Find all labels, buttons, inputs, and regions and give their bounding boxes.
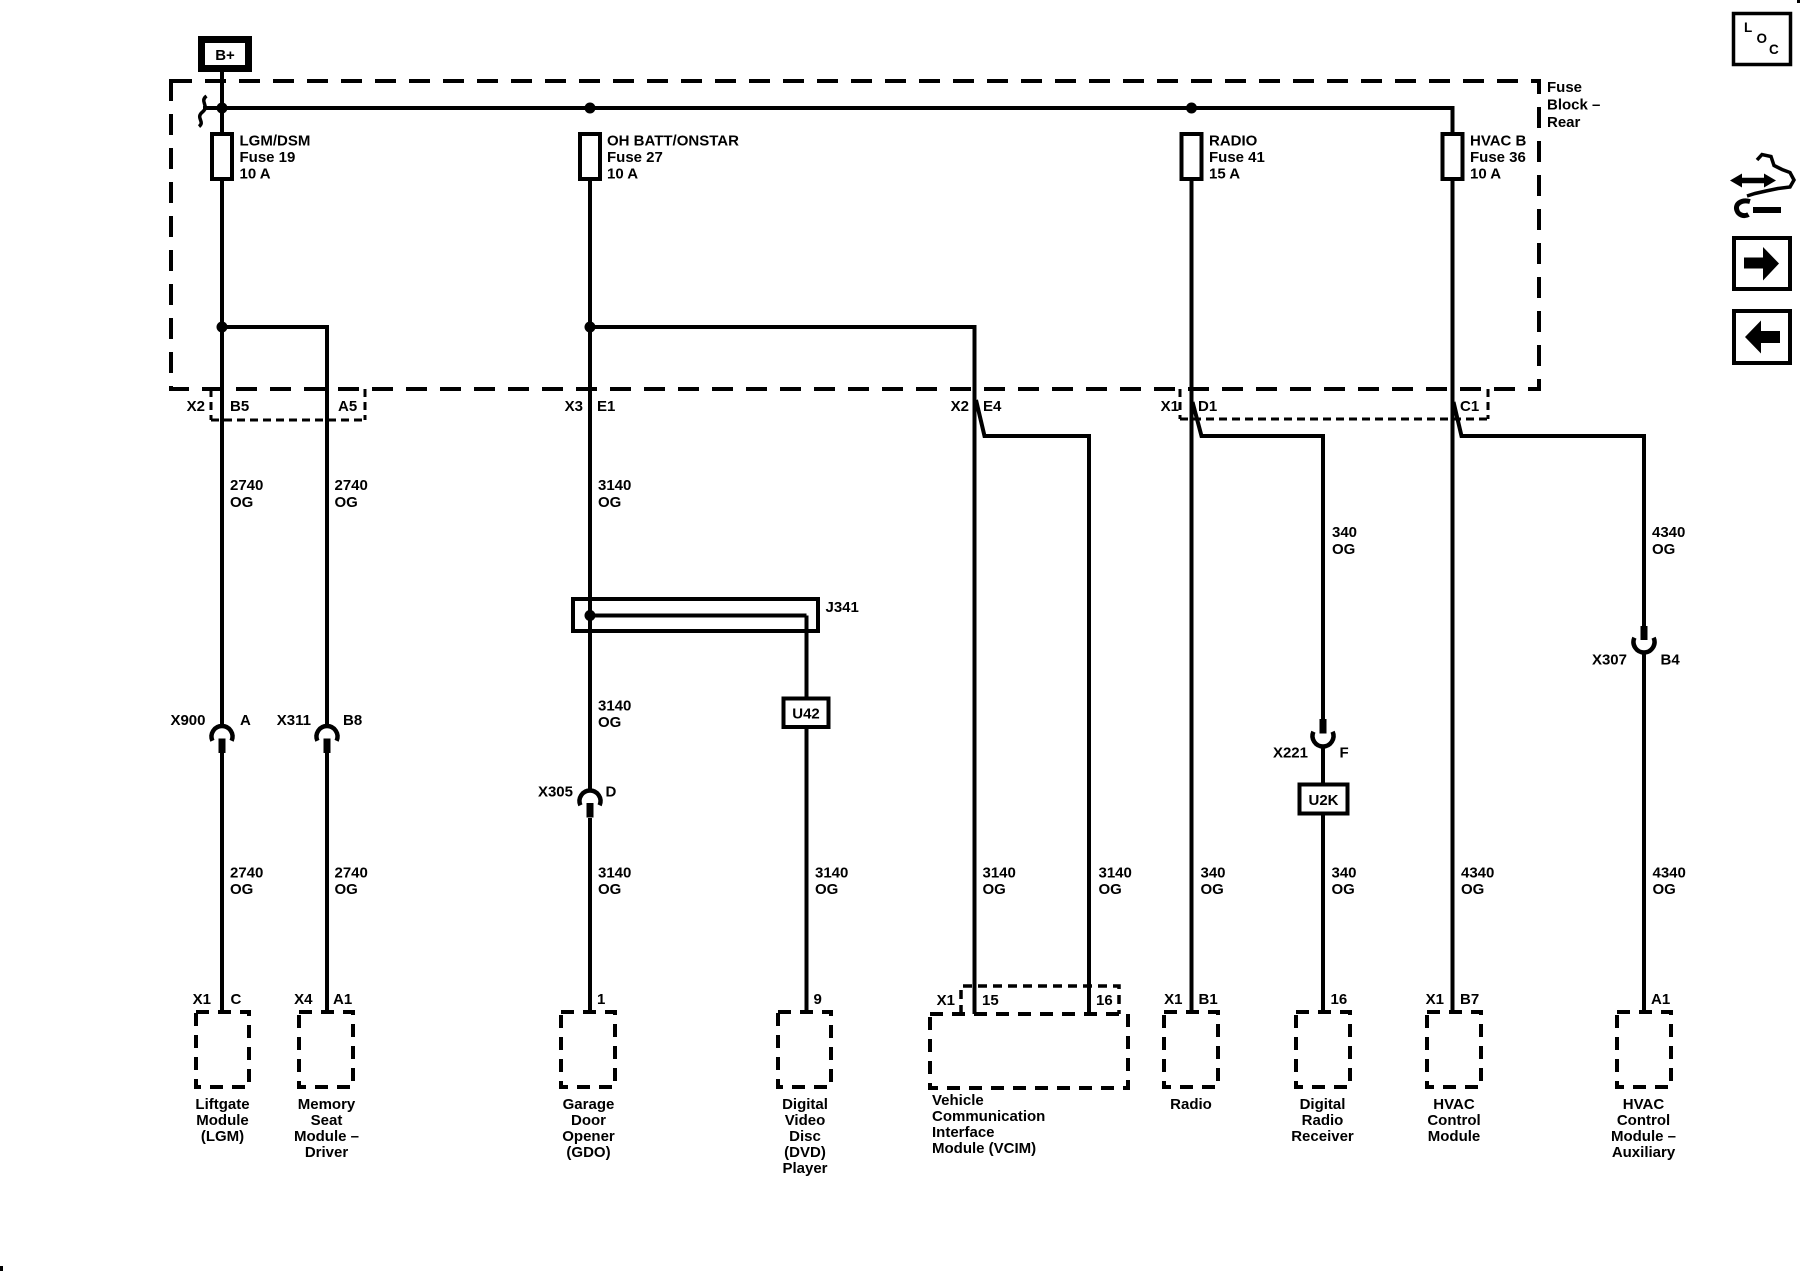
svg-text:Vehicle: Vehicle [932,1092,984,1109]
svg-text:C1: C1 [1460,398,1479,415]
fuse block rear dashed outline [171,81,1539,389]
svg-text:X1: X1 [1161,398,1179,415]
wire X900 to liftgate module [220,753,224,1012]
navigation icon double arrow with loop [1730,155,1794,216]
wire label 3140 OG (lower DVD) [815,865,848,899]
svg-text:Radio: Radio [1170,1096,1212,1113]
memory seat module box [294,991,359,1161]
svg-text:OG: OG [1201,881,1224,898]
svg-text:340: 340 [1332,524,1357,541]
wire label 4340 OG (HVAC) [1461,865,1494,899]
svg-text:HVAC: HVAC [1623,1096,1665,1113]
svg-text:OG: OG [230,494,253,511]
connector strip X1 (D1 C1) [1180,389,1488,419]
wire label 3140 OG (E1) [598,477,631,511]
power symbol B+ [202,40,249,69]
svg-text:Auxiliary: Auxiliary [1612,1144,1676,1161]
svg-text:3140: 3140 [1099,865,1132,882]
svg-text:(LGM): (LGM) [201,1128,244,1145]
svg-text:X4: X4 [294,991,313,1008]
wire label 340 OG (radio) [1201,865,1226,899]
svg-text:Player: Player [782,1160,827,1177]
svg-text:Seat: Seat [311,1112,343,1129]
wire fuse41 output through D1 down to radio [1190,179,1194,1012]
wire X221 to U2K [1321,746,1325,785]
svg-text:OG: OG [598,494,621,511]
svg-text:OG: OG [983,881,1006,898]
svg-text:4340: 4340 [1652,524,1685,541]
LOC legend box [1734,14,1791,65]
svg-text:Communication: Communication [932,1108,1045,1125]
svg-text:RADIO: RADIO [1209,133,1258,150]
svg-text:A1: A1 [333,991,352,1008]
fuse OH BATT/ONSTAR Fuse 27 10A [580,133,739,183]
svg-text:X1: X1 [937,992,955,1009]
svg-text:4340: 4340 [1461,865,1494,882]
svg-text:X1: X1 [193,991,211,1008]
svg-text:X1: X1 [1426,991,1444,1008]
VCIM module box [930,986,1128,1157]
svg-text:X1: X1 [1164,991,1182,1008]
junction node fuse27 branch [585,322,596,333]
label Fuse Block - Rear [1547,79,1600,131]
svg-text:Door: Door [571,1112,606,1129]
svg-text:C: C [231,991,242,1008]
wire U42 to DVD player [805,727,809,1012]
svg-text:X900: X900 [170,712,205,729]
svg-text:D: D [606,784,617,801]
svg-text:Garage: Garage [563,1096,615,1113]
page corner mark top right [1797,0,1800,3]
wire label 340 OG (DRR) [1332,865,1357,899]
svg-text:3140: 3140 [598,865,631,882]
svg-text:Module (VCIM): Module (VCIM) [932,1140,1036,1157]
radio box [1164,991,1218,1113]
garage door opener box [561,991,615,1161]
svg-text:B8: B8 [343,712,362,729]
wire fuse19 output to B5 and down to X900 [220,179,224,727]
svg-text:OG: OG [230,881,253,898]
svg-text:Block –: Block – [1547,97,1600,114]
svg-text:O: O [1757,31,1768,46]
svg-text:9: 9 [814,991,822,1008]
wire fuse36 output through C1 down to HVAC control module [1451,179,1455,1012]
junction node at B+ column [217,103,228,114]
wire label 4340 OG (HVAC aux) [1653,865,1686,899]
liftgate module box [193,991,250,1145]
svg-text:B7: B7 [1460,991,1479,1008]
svg-text:Fuse 36: Fuse 36 [1470,149,1526,166]
connector X900 pin A [170,712,251,753]
svg-text:OG: OG [1652,541,1675,558]
svg-text:OG: OG [1099,881,1122,898]
svg-text:A: A [240,712,251,729]
navigation icon arrow right box [1734,238,1790,289]
wire branch to A5 column [222,327,327,727]
svg-text:J341: J341 [826,599,859,616]
svg-text:Digital: Digital [782,1096,828,1113]
svg-text:Liftgate: Liftgate [195,1096,249,1113]
svg-text:D1: D1 [1198,398,1217,415]
svg-text:B4: B4 [1661,652,1681,669]
svg-text:OG: OG [1332,541,1355,558]
wire J341 internal bus [590,614,807,618]
svg-text:15: 15 [982,992,999,1009]
svg-text:E4: E4 [983,398,1002,415]
svg-text:3140: 3140 [815,865,848,882]
svg-text:2740: 2740 [230,865,263,882]
wire fork below E4 to VCIM pin 16 [976,400,1089,1014]
connector X307 pin B4 [1592,626,1680,669]
svg-text:Fuse: Fuse [1547,79,1582,96]
svg-text:2740: 2740 [230,477,263,494]
svg-text:LGM/DSM: LGM/DSM [240,133,311,150]
connector X221 pin F [1273,719,1349,762]
svg-text:F: F [1340,745,1349,762]
svg-text:Fuse 19: Fuse 19 [240,149,296,166]
wire X307 to HVAC control module auxiliary [1642,652,1646,1012]
digital radio receiver box [1291,991,1354,1145]
HVAC control module box [1426,991,1481,1145]
page mark bottom left [0,1266,3,1271]
junction node at fuse 27 column [585,103,596,114]
svg-text:1: 1 [597,991,605,1008]
svg-text:Module –: Module – [1611,1128,1676,1145]
wire label 2740 OG (lower B5) [230,865,263,899]
svg-text:3140: 3140 [983,865,1016,882]
svg-text:X311: X311 [277,712,311,729]
svg-text:X221: X221 [1273,745,1308,762]
svg-text:X3: X3 [565,398,583,415]
wire X305 to garage door opener [588,818,592,1012]
svg-text:Rear: Rear [1547,114,1581,131]
svg-text:340: 340 [1332,865,1357,882]
fuse RADIO Fuse 41 15A [1182,133,1265,183]
wire label 3140 OG (lower GDO) [598,865,631,899]
connector strip X2 (B5 A5) [211,389,365,420]
svg-text:B1: B1 [1199,991,1218,1008]
DVD player box [778,991,831,1177]
wire fork below C1 to X307 column [1454,402,1645,626]
junction node inside J341 [585,610,596,621]
HVAC control module auxiliary box [1611,991,1676,1161]
wire branch to E4 column [590,327,975,1014]
svg-text:OG: OG [335,494,358,511]
wire U2K to digital radio receiver [1321,814,1325,1013]
wire B+ feed drop [220,72,224,134]
svg-text:Module: Module [196,1112,249,1129]
data link U2K [1300,785,1348,814]
wire X311 to memory seat module [325,753,329,1012]
svg-text:OG: OG [598,714,621,731]
junction node at fuse 41 column [1186,103,1197,114]
svg-text:Memory: Memory [298,1096,356,1113]
svg-text:U2K: U2K [1308,792,1338,809]
svg-text:OG: OG [1653,881,1676,898]
svg-text:L: L [1744,20,1752,35]
svg-text:Control: Control [1427,1112,1480,1129]
svg-text:3140: 3140 [598,477,631,494]
wire main bus [203,108,1453,134]
svg-text:2740: 2740 [335,477,368,494]
svg-text:HVAC: HVAC [1433,1096,1475,1113]
svg-text:10 A: 10 A [240,166,271,183]
svg-text:OG: OG [815,881,838,898]
splice pack J341 [573,599,859,631]
svg-text:X305: X305 [538,784,573,801]
svg-text:Control: Control [1617,1112,1670,1129]
svg-text:Disc: Disc [789,1128,821,1145]
wire label 4340 OG (C1 branch) [1652,524,1685,558]
svg-text:OG: OG [598,881,621,898]
wire label 3140 OG (VCIM 15) [983,865,1016,899]
svg-text:340: 340 [1201,865,1226,882]
connector X311 pin B8 [277,712,362,753]
svg-text:X2: X2 [187,398,205,415]
wire label 2740 OG (B5) [230,477,263,511]
svg-text:Module: Module [1428,1128,1481,1145]
connector X305 pin D [538,784,617,818]
svg-text:B5: B5 [230,398,249,415]
svg-text:Fuse 27: Fuse 27 [607,149,663,166]
svg-text:E1: E1 [597,398,615,415]
svg-text:B+: B+ [215,47,235,64]
wire fork below D1 to X221 column [1193,402,1324,719]
svg-text:Driver: Driver [305,1144,349,1161]
fuse HVAC B Fuse 36 10A [1443,133,1527,183]
svg-text:C: C [1769,42,1779,57]
svg-text:16: 16 [1096,992,1113,1009]
svg-text:10 A: 10 A [1470,166,1501,183]
navigation icon arrow left box [1734,311,1790,363]
svg-text:15 A: 15 A [1209,166,1240,183]
wire J341 branch down to U42 [805,616,809,699]
fuse LGM/DSM Fuse 19 10A [212,133,310,183]
svg-text:(DVD): (DVD) [784,1144,826,1161]
wire label 2740 OG (lower A5) [335,865,368,899]
wire label 2740 OG (A5) [335,477,368,511]
splice squiggle at bus start [199,96,207,127]
svg-text:10 A: 10 A [607,166,638,183]
svg-text:Opener: Opener [562,1128,615,1145]
svg-text:HVAC B: HVAC B [1470,133,1527,150]
data link U42 [784,699,829,728]
svg-text:Module –: Module – [294,1128,359,1145]
svg-text:A1: A1 [1651,991,1670,1008]
svg-text:X307: X307 [1592,652,1627,669]
svg-text:Interface: Interface [932,1124,995,1141]
wire fuse27 output to E1 and down through J341 to X305 [588,179,592,791]
svg-text:Radio: Radio [1302,1112,1344,1129]
wire label 340 OG (D1 branch) [1332,524,1357,558]
svg-text:OH BATT/ONSTAR: OH BATT/ONSTAR [607,133,739,150]
junction node fuse19 branch [217,322,228,333]
svg-text:16: 16 [1331,991,1348,1008]
svg-text:A5: A5 [338,398,357,415]
svg-text:Digital: Digital [1300,1096,1346,1113]
svg-text:Video: Video [785,1112,826,1129]
svg-text:Fuse 41: Fuse 41 [1209,149,1265,166]
wire label 3140 OG (VCIM 16) [1099,865,1132,899]
svg-text:Receiver: Receiver [1291,1128,1354,1145]
svg-text:OG: OG [1461,881,1484,898]
svg-text:OG: OG [1332,881,1355,898]
svg-text:2740: 2740 [335,865,368,882]
wire label 3140 OG (below J341) [598,698,631,732]
svg-text:3140: 3140 [598,698,631,715]
svg-text:OG: OG [335,881,358,898]
svg-text:U42: U42 [792,706,820,723]
svg-text:X2: X2 [951,398,969,415]
svg-text:(GDO): (GDO) [566,1144,610,1161]
svg-text:4340: 4340 [1653,865,1686,882]
